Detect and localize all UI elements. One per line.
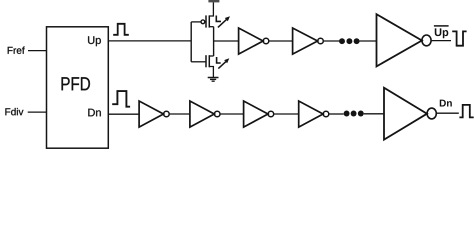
waveform inverted pulse Up-bar [452, 31, 466, 45]
wire Dn output [108, 113, 139, 115]
bubble PMOS gate [201, 20, 205, 24]
wire dots to U3 [360, 40, 377, 42]
inverter U3 big [377, 14, 432, 66]
label Fdiv [5, 108, 23, 115]
transistor M1 PMOS drain lead [209, 26, 213, 28]
PFD block [47, 27, 109, 148]
inverter U7 [299, 101, 329, 127]
pin label Dn [88, 109, 100, 117]
pin label Up [88, 36, 101, 46]
label Up-bar [434, 26, 449, 38]
label PFD [62, 77, 90, 90]
transistor M2 NMOS drain lead [209, 55, 213, 57]
wire U4 to U5 [169, 113, 190, 115]
waveform pulse Up [113, 24, 129, 35]
wire Up output [108, 40, 191, 42]
node input of current-starved inverter [190, 22, 192, 62]
wire dots to U8 [364, 113, 384, 115]
arrow variable M1 [218, 16, 230, 27]
transistor M1 PMOS channel bar [208, 15, 210, 27]
wire U1 to U2 [269, 40, 293, 42]
transistor M2 NMOS channel bar [208, 55, 210, 67]
inverter U8 big [384, 88, 436, 140]
label L of M2 [217, 57, 221, 63]
label L of M1 [216, 16, 221, 22]
wire Fref input [28, 50, 47, 52]
transistor M1 PMOS source lead to VDD [209, 2, 213, 16]
wire bubble to gate bar [205, 21, 206, 23]
ellipsis dots bottom [344, 111, 364, 117]
inverter U2 [293, 28, 324, 54]
label Dn output [440, 100, 452, 107]
wire U3 output [431, 40, 451, 42]
node output of current-starved inverter [213, 27, 215, 56]
transistor M1 PMOS gate bar [205, 15, 207, 27]
inverter U5 [190, 101, 220, 127]
waveform pulse Dn output [459, 105, 473, 118]
wire U8 output [436, 112, 459, 114]
ground [208, 78, 219, 82]
label Fref [8, 47, 25, 54]
wire U5 to U6 [220, 113, 244, 115]
transistor M2 NMOS source lead [209, 67, 213, 78]
wire PMOS gate [191, 21, 201, 23]
wire NMOS gate [191, 61, 206, 63]
inverter U1 [239, 28, 269, 54]
wire U6 to U7 [274, 113, 299, 115]
wire U2 to dots [323, 40, 339, 42]
transistor M2 NMOS gate bar [205, 55, 207, 67]
power VDD bar [208, 0, 219, 2]
inverter U4 [139, 101, 169, 127]
wire U7 to dots [329, 113, 344, 115]
waveform pulse Dn [112, 91, 130, 107]
wire starved inverter output [214, 40, 239, 42]
wire Fdiv input [28, 111, 47, 113]
inverter U6 [244, 101, 274, 127]
ellipsis dots top [339, 38, 360, 44]
arrow variable M2 [218, 58, 229, 68]
